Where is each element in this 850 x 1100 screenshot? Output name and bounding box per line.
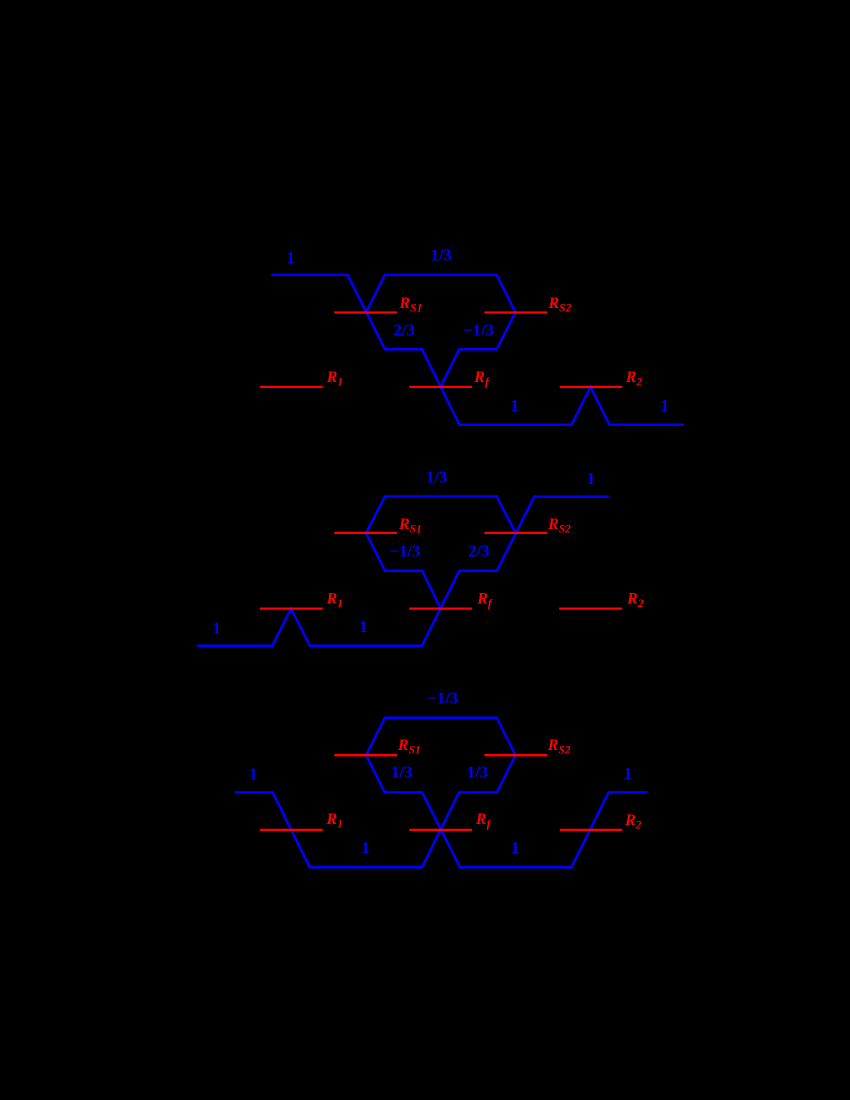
wire -1/3 from Rf up to RS1 (366, 533, 441, 609)
wire left input 1 through R1, Rf up to RS2 and bridge (235, 718, 516, 868)
svg-text:1/3: 1/3 (391, 762, 412, 781)
resistor R1 (260, 369, 343, 389)
resistor R1 (260, 811, 343, 831)
wire -1/3 from RS2 down to Rf (441, 313, 516, 387)
wire bridge 1/3 from RS1 to RS2 (366, 275, 515, 313)
svg-text:−1/3: −1/3 (428, 688, 459, 707)
svg-text:1: 1 (286, 248, 294, 267)
svg-text:1: 1 (511, 838, 519, 857)
wire right input 1 through R2, Rf up to RS1 (366, 755, 647, 867)
wire input 1 over R1 through Rf, RS2 to output (197, 497, 609, 646)
resistor RS2 (484, 516, 571, 536)
svg-text:−1/3: −1/3 (390, 542, 421, 561)
svg-text:1: 1 (624, 764, 632, 783)
svg-text:−1/3: −1/3 (463, 320, 494, 339)
svg-text:2/3: 2/3 (394, 320, 415, 339)
svg-text:1: 1 (511, 396, 519, 415)
resistor Rf (409, 369, 490, 389)
resistor R2 (560, 369, 643, 389)
resistor RS1 (334, 295, 422, 315)
resistor R2 (560, 812, 642, 832)
svg-text:1: 1 (212, 619, 220, 638)
svg-text:2/3: 2/3 (468, 542, 489, 561)
resistor R2 (559, 591, 644, 611)
resistor RS1 (334, 516, 422, 536)
resistor RS2 (484, 295, 571, 315)
resistor Rf (409, 811, 491, 831)
wire bridge 1/3 from RS1 to RS2 (366, 497, 515, 533)
wire input 1 through RS1, Rf to R2 output (272, 275, 685, 425)
svg-text:1: 1 (249, 764, 257, 783)
svg-text:1: 1 (587, 469, 595, 488)
svg-text:1: 1 (361, 838, 369, 857)
svg-text:1: 1 (660, 396, 668, 415)
svg-text:1/3: 1/3 (426, 467, 447, 486)
svg-text:1/3: 1/3 (431, 246, 452, 265)
resistor RS1 (334, 737, 420, 757)
resistor R1 (260, 591, 343, 611)
svg-text:1: 1 (359, 617, 367, 636)
resistor Rf (409, 591, 493, 611)
resistor RS2 (484, 737, 570, 757)
svg-text:1/3: 1/3 (467, 762, 488, 781)
